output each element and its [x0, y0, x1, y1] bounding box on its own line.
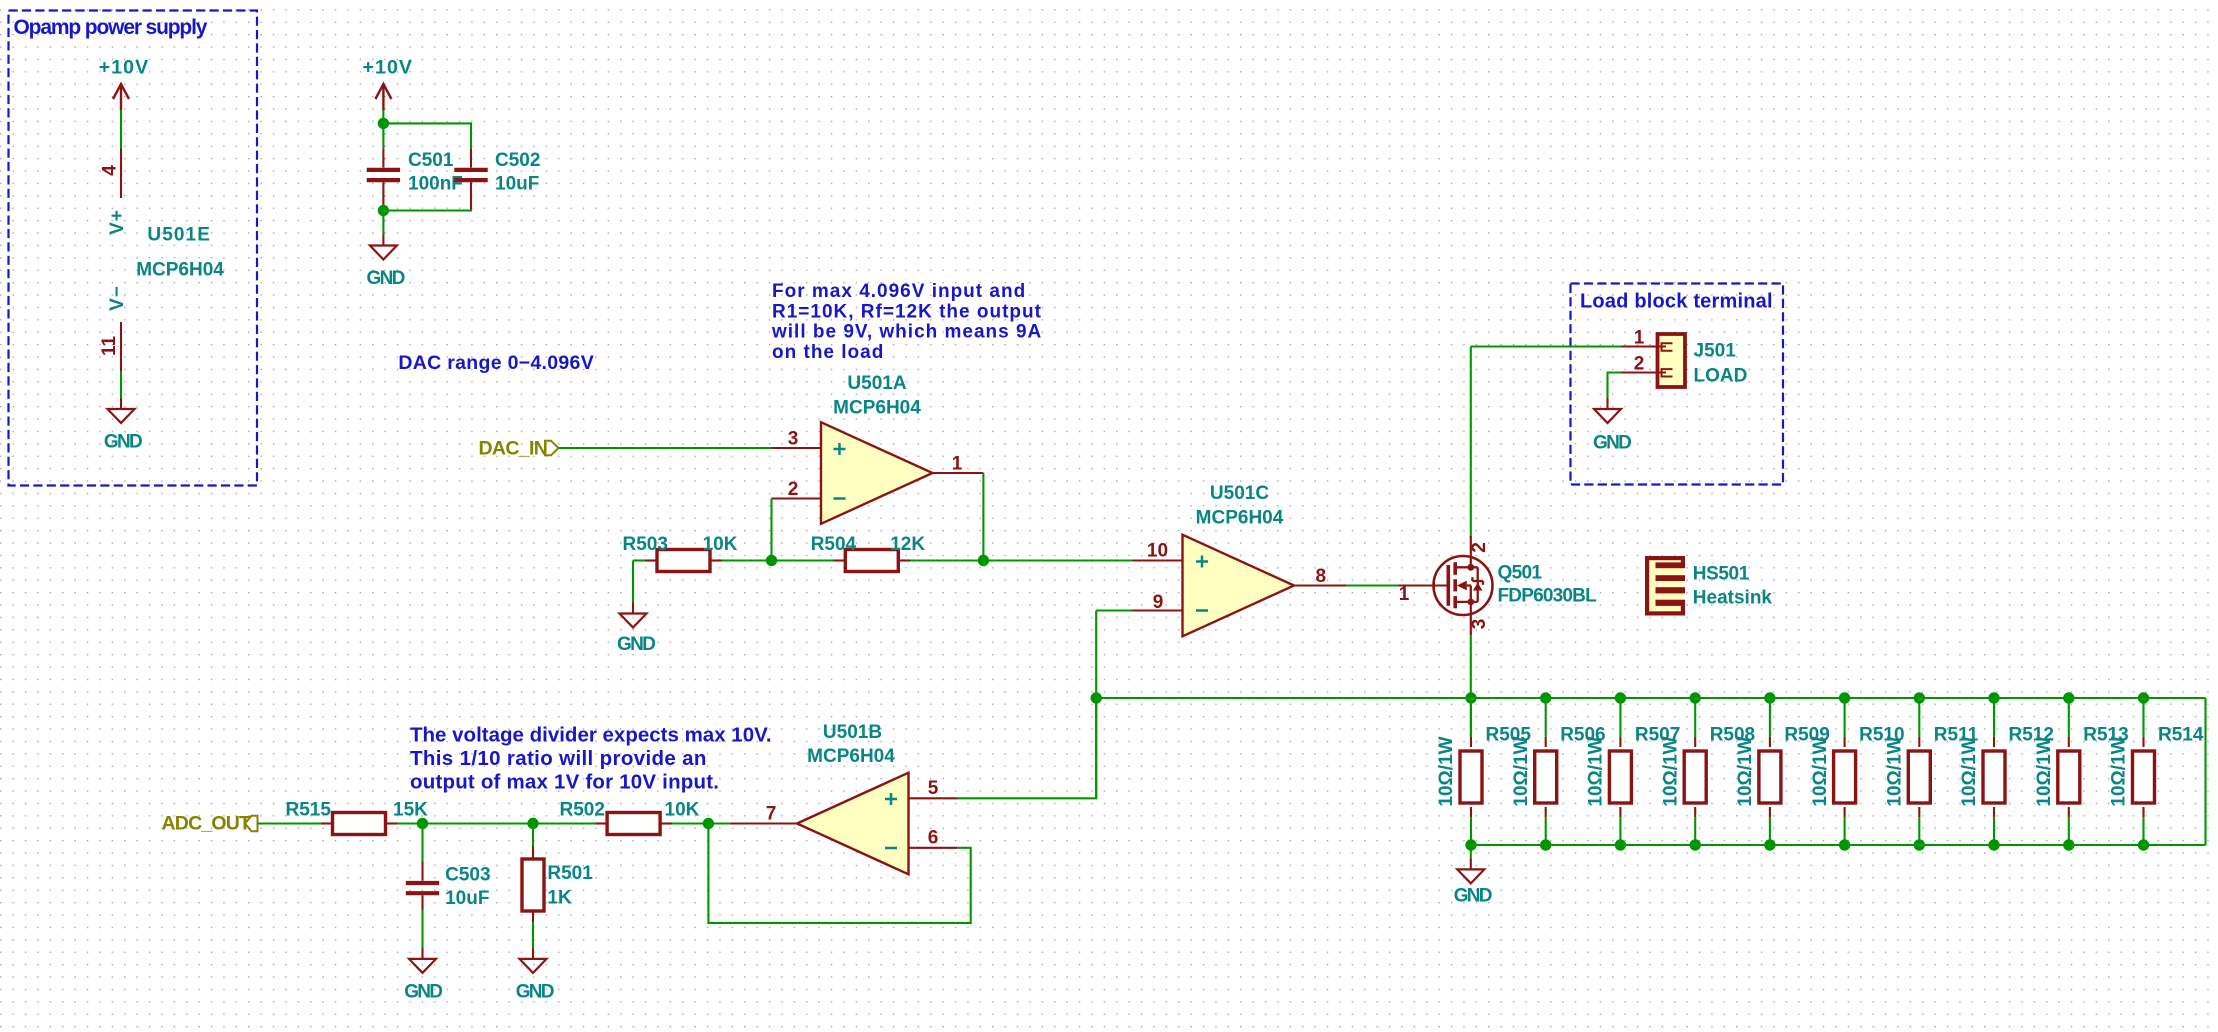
svg-text:ADC_OUT: ADC_OUT: [162, 813, 252, 835]
power +10V (opamp supply): [99, 57, 149, 111]
ground GND (U501E): [104, 398, 142, 453]
svg-text:10Ω/1W: 10Ω/1W: [1436, 736, 1457, 806]
wire: [1545, 698, 1547, 737]
pin 9 (U501C -): [1133, 592, 1183, 613]
op-amp U501A MCP6H04: [821, 373, 933, 524]
svg-text:GND: GND: [617, 634, 655, 655]
junction node U501A output: [978, 555, 989, 566]
capacitor C501 100nF: [367, 148, 463, 209]
svg-text:LOAD: LOAD: [1694, 366, 1748, 387]
svg-text:R515: R515: [286, 800, 332, 821]
resistor R512 10Ω/1W: [1959, 725, 2054, 818]
svg-text:2: 2: [1469, 542, 1490, 553]
svg-text:3: 3: [788, 429, 799, 450]
pin 8 (U501C out): [1294, 566, 1347, 587]
pin 7 (U501B out): [730, 804, 797, 825]
ground GND (C503): [404, 948, 442, 1003]
ground GND (load): [1593, 398, 1631, 454]
capacitor C502 10uF: [454, 148, 540, 209]
resistor R506 10Ω/1W: [1511, 725, 1606, 818]
wire: [383, 123, 471, 148]
svg-text:10Ω/1W: 10Ω/1W: [1959, 736, 1980, 806]
svg-text:10Ω/1W: 10Ω/1W: [1660, 736, 1681, 806]
svg-text:U501B: U501B: [823, 722, 882, 743]
wire: [423, 822, 534, 824]
wire: [770, 499, 772, 561]
junction: [1914, 839, 1925, 850]
svg-text:15K: 15K: [393, 800, 428, 821]
svg-text:GND: GND: [1593, 433, 1631, 454]
svg-text:10uF: 10uF: [495, 174, 539, 195]
junction: [378, 118, 389, 129]
svg-text:GND: GND: [1454, 886, 1492, 907]
svg-text:HS501: HS501: [1693, 564, 1750, 585]
wire: [421, 824, 423, 862]
junction: [527, 818, 538, 829]
svg-text:1K: 1K: [547, 888, 572, 909]
wire: [1096, 609, 1132, 611]
junction: [1615, 839, 1626, 850]
svg-text:output of max 1V for 10V input: output of max 1V for 10V input.: [410, 771, 719, 794]
pin 1 (U501A out): [933, 454, 984, 475]
svg-text:V+: V+: [107, 209, 128, 235]
pin 10 (U501C +): [1133, 541, 1183, 562]
svg-text:1: 1: [1399, 584, 1410, 605]
wire: [1470, 635, 1472, 737]
heatsink HS501: [1645, 556, 1772, 616]
svg-text:+10V: +10V: [99, 57, 149, 79]
svg-text:5: 5: [928, 778, 939, 799]
junction: [1914, 692, 1925, 703]
wire: [2068, 817, 2070, 845]
svg-text:3: 3: [1469, 619, 1490, 630]
svg-text:This 1/10 ratio will provide a: This 1/10 ratio will provide an: [410, 747, 707, 770]
junction: [2138, 839, 2149, 850]
svg-text:DAC_IN: DAC_IN: [479, 438, 548, 460]
wire: [382, 110, 384, 123]
resistor R504 12K: [811, 534, 926, 572]
wire: [1470, 347, 1472, 537]
junction: [417, 818, 428, 829]
wire: [1347, 584, 1399, 586]
wire: [1844, 698, 1846, 737]
svg-text:10uF: 10uF: [445, 888, 489, 909]
svg-text:R503: R503: [623, 534, 668, 555]
svg-text:U501E: U501E: [147, 225, 211, 246]
svg-text:GND: GND: [404, 982, 442, 1003]
wire: [1694, 817, 1696, 845]
wire: [1993, 698, 1995, 737]
ground GND (decoupling): [367, 235, 405, 290]
svg-text:10K: 10K: [665, 800, 700, 821]
wire: [532, 824, 534, 847]
svg-text:C502: C502: [495, 150, 540, 171]
wire: [1918, 817, 1920, 845]
svg-text:9: 9: [1153, 592, 1164, 613]
resistor R513 10Ω/1W: [2034, 725, 2129, 818]
junction node inverting input U501A: [766, 555, 777, 566]
wire: [1471, 345, 1621, 347]
wire: [1619, 817, 1621, 845]
connector J501 LOAD: [1621, 328, 1747, 388]
junction: [1690, 839, 1701, 850]
wire: [1095, 611, 1097, 799]
pin 2 (U501A -): [772, 479, 822, 500]
resistor R515 15K: [286, 800, 429, 835]
junction: [1615, 692, 1626, 703]
junction: [1839, 839, 1850, 850]
resistor R510 10Ω/1W: [1810, 725, 1905, 818]
junction: [2063, 692, 2074, 703]
wire: [1470, 698, 1472, 737]
wire: [708, 822, 730, 824]
wire: [1470, 845, 1472, 858]
svg-text:10Ω/1W: 10Ω/1W: [2109, 736, 2130, 806]
svg-text:MCP6H04: MCP6H04: [1196, 508, 1284, 529]
svg-text:8: 8: [1316, 566, 1327, 587]
junction: [703, 818, 714, 829]
resistor R505 10Ω/1W: [1436, 725, 1531, 818]
ground GND (R501): [516, 948, 554, 1003]
svg-text:MCP6H04: MCP6H04: [807, 746, 895, 767]
resistor R507 10Ω/1W: [1586, 725, 1681, 818]
note: voltage divider explanation: [410, 724, 772, 794]
pin 5 (U501B +): [909, 778, 958, 799]
wire: [421, 910, 423, 948]
note: gain explanation: [771, 281, 1042, 363]
svg-text:10Ω/1W: 10Ω/1W: [1885, 736, 1906, 806]
wire: [120, 371, 122, 398]
transistor Q501 FDP6030BL: [1399, 536, 1598, 635]
junction: [1764, 692, 1775, 703]
wire: [1545, 817, 1547, 845]
resistor R502 10K: [560, 800, 700, 835]
wire: [533, 822, 595, 824]
pin 6 (U501B -): [909, 828, 958, 849]
op-amp U501B MCP6H04: [797, 722, 909, 874]
svg-text:1: 1: [952, 454, 963, 475]
svg-text:R514: R514: [2158, 725, 2204, 746]
wire: drain bus: [1096, 697, 2205, 699]
wire: [910, 559, 983, 561]
wire: [1694, 698, 1696, 737]
svg-text:U501C: U501C: [1210, 483, 1269, 504]
junction: [1988, 692, 1999, 703]
svg-text:R502: R502: [560, 800, 605, 821]
svg-text:Heatsink: Heatsink: [1693, 588, 1773, 609]
svg-text:11: 11: [99, 336, 120, 357]
wire: [982, 473, 984, 561]
svg-text:1: 1: [1634, 328, 1645, 349]
junction: [378, 205, 389, 216]
note box: Opamp power supply: [9, 11, 258, 486]
wire: [398, 822, 423, 824]
svg-text:+10V: +10V: [363, 57, 413, 79]
svg-text:10Ω/1W: 10Ω/1W: [1586, 736, 1607, 806]
svg-text:MCP6H04: MCP6H04: [833, 398, 921, 419]
junction: [1540, 839, 1551, 850]
wire: [1769, 698, 1771, 737]
wire: [632, 561, 634, 603]
svg-text:10Ω/1W: 10Ω/1W: [1735, 736, 1756, 806]
wire: [2068, 698, 2070, 737]
resistor R511 10Ω/1W: [1885, 725, 1979, 818]
capacitor C503 10uF: [406, 861, 491, 909]
svg-text:10: 10: [1147, 541, 1168, 562]
svg-text:6: 6: [928, 828, 939, 849]
svg-text:GND: GND: [104, 432, 142, 453]
svg-text:2: 2: [1634, 354, 1645, 375]
wire: feedback: [708, 824, 970, 923]
note: DAC range: [398, 352, 594, 374]
svg-text:R1=10K, Rf=12K the output: R1=10K, Rf=12K the output: [772, 301, 1042, 322]
svg-text:7: 7: [766, 804, 777, 825]
svg-text:GND: GND: [367, 268, 405, 289]
op-amp U501E power unit MCP6H04: [99, 149, 224, 372]
wire: [983, 559, 1132, 561]
ground GND (R503): [617, 603, 655, 656]
note box: Load block terminal: [1571, 284, 1784, 485]
svg-text:J501: J501: [1694, 341, 1737, 362]
wire: [722, 559, 772, 561]
wire: [382, 123, 384, 148]
junction: [1988, 839, 1999, 850]
power +10V (decoupling): [363, 57, 413, 111]
wire: [1993, 817, 1995, 845]
wire: [633, 559, 645, 561]
wire: [120, 110, 122, 149]
svg-text:R501: R501: [547, 863, 593, 884]
svg-text:GND: GND: [516, 982, 554, 1003]
net label ADC_OUT: [162, 813, 258, 835]
wire: [2142, 698, 2144, 737]
junction: [1690, 692, 1701, 703]
junction: [1465, 839, 1476, 850]
resistor R514 10Ω/1W: [2109, 725, 2204, 818]
wire: [1918, 698, 1920, 737]
svg-text:100nF: 100nF: [408, 174, 463, 195]
svg-text:R504: R504: [811, 534, 857, 555]
wire: [1619, 698, 1621, 737]
svg-text:U501A: U501A: [847, 373, 906, 394]
junction: [2063, 839, 2074, 850]
junction: [1839, 692, 1850, 703]
resistor R503 10K: [623, 534, 738, 572]
wire: [958, 698, 1096, 798]
wire: [559, 447, 772, 449]
svg-text:V−: V−: [107, 285, 128, 311]
svg-text:4: 4: [100, 165, 121, 176]
junction: [1091, 692, 1102, 703]
svg-text:C501: C501: [408, 150, 454, 171]
resistor R501 1K: [522, 847, 593, 923]
junction: [2138, 692, 2149, 703]
wire: [1769, 817, 1771, 845]
junction: [1764, 839, 1775, 850]
svg-text:For max 4.096V input and: For max 4.096V input and: [772, 281, 1026, 302]
svg-text:10Ω/1W: 10Ω/1W: [2034, 736, 2055, 806]
ground GND (load bank): [1454, 858, 1492, 906]
svg-text:2: 2: [788, 479, 799, 500]
svg-text:10Ω/1W: 10Ω/1W: [1810, 736, 1831, 806]
svg-text:MCP6H04: MCP6H04: [136, 260, 224, 281]
junction: [1465, 692, 1476, 703]
pin 3 (U501A +): [772, 429, 822, 450]
wire: [383, 209, 471, 211]
wire: [1844, 817, 1846, 845]
svg-text:The voltage divider expects ma: The voltage divider expects max 10V.: [410, 724, 772, 747]
svg-text:Load block terminal: Load block terminal: [1580, 291, 1773, 313]
svg-text:Q501: Q501: [1498, 563, 1543, 584]
wire: right rail: [2204, 698, 2206, 845]
op-amp U501C MCP6H04: [1183, 483, 1295, 636]
junction: [1540, 692, 1551, 703]
wire: [672, 822, 708, 824]
wire: [2142, 817, 2144, 845]
svg-text:DAC range 0−4.096V: DAC range 0−4.096V: [398, 352, 594, 374]
resistor R508 10Ω/1W: [1660, 725, 1755, 818]
net label DAC_IN: [479, 438, 559, 460]
svg-text:12K: 12K: [890, 534, 925, 555]
svg-text:C503: C503: [445, 865, 490, 886]
svg-text:on the load: on the load: [772, 342, 884, 363]
wire: [772, 559, 834, 561]
svg-text:will be 9V, which means 9A: will be 9V, which means 9A: [771, 322, 1042, 343]
wire: bottom bus: [1471, 844, 2206, 846]
svg-text:FDP6030BL: FDP6030BL: [1498, 586, 1598, 607]
wire: [258, 822, 321, 824]
wire: [532, 922, 534, 948]
svg-text:10Ω/1W: 10Ω/1W: [1511, 736, 1532, 806]
wire: [1470, 817, 1472, 845]
resistor R509 10Ω/1W: [1735, 725, 1830, 818]
wire: [382, 211, 384, 235]
wire: [1608, 373, 1622, 399]
svg-text:Opamp power supply: Opamp power supply: [14, 16, 208, 39]
svg-text:10K: 10K: [703, 534, 738, 555]
